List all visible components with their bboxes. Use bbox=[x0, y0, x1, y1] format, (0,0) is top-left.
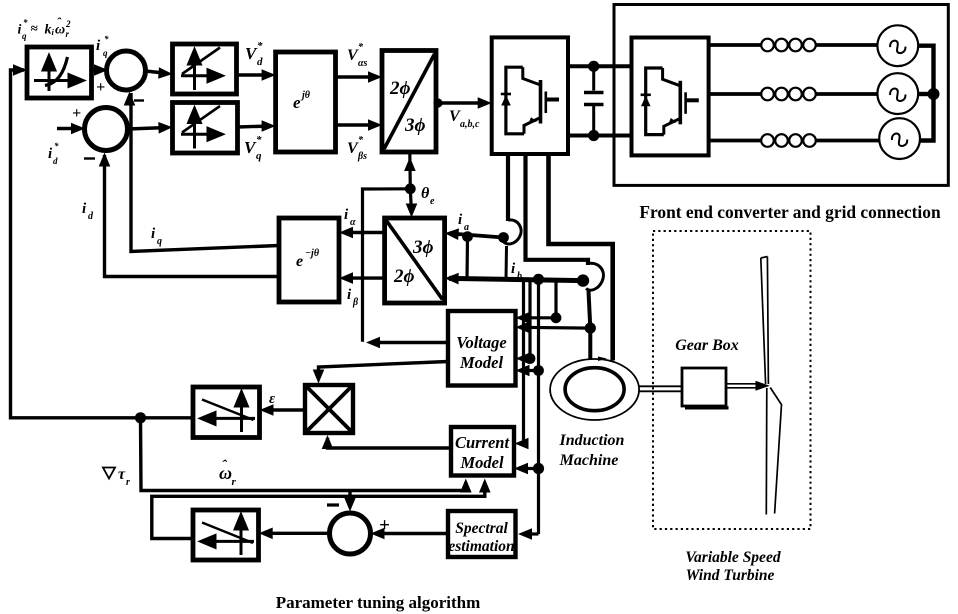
axes inside D1 bbox=[201, 392, 255, 432]
svg-text:d: d bbox=[53, 156, 58, 166]
wire CM input right bbox=[519, 467, 539, 470]
label e -jtheta bbox=[296, 248, 320, 270]
label id* ref bbox=[48, 141, 59, 166]
svg-text:*: * bbox=[104, 34, 109, 44]
block spectral estimation bbox=[448, 511, 516, 557]
wire phase B drop bbox=[526, 154, 589, 265]
svg-text:Machine: Machine bbox=[559, 452, 619, 469]
svg-text:+: + bbox=[379, 515, 390, 536]
node grid bus bbox=[928, 88, 940, 100]
wire sense column to VM4 CM spectral bbox=[537, 279, 540, 534]
label iq fb bbox=[151, 226, 162, 247]
svg-text:q: q bbox=[22, 31, 27, 41]
wire tuning node down to bottom bus bbox=[141, 418, 462, 491]
svg-text:βs: βs bbox=[357, 151, 367, 162]
svg-text:k: k bbox=[45, 23, 52, 38]
svg-text:q: q bbox=[157, 236, 162, 247]
svg-text:a,b,c: a,b,c bbox=[460, 119, 480, 130]
label Vas* bbox=[347, 42, 368, 69]
axes inside B2 bbox=[181, 109, 222, 149]
machine top tick bbox=[598, 357, 607, 362]
wire phase C drop bbox=[549, 154, 613, 361]
wire id feedback to S2 bbox=[105, 155, 280, 277]
svg-text:estimation: estimation bbox=[448, 538, 514, 555]
label id fb bbox=[82, 201, 94, 222]
svg-text:r: r bbox=[232, 476, 237, 488]
svg-text:*: * bbox=[23, 18, 28, 28]
wire CM input top-right bbox=[519, 280, 524, 443]
svg-text:r: r bbox=[126, 477, 130, 488]
svg-text:−jθ: −jθ bbox=[305, 248, 320, 259]
svg-text:Wind Turbine: Wind Turbine bbox=[686, 567, 775, 584]
wire theta-e vertical bbox=[408, 152, 412, 189]
wire grid bus bbox=[918, 46, 933, 141]
gearbox shadow bbox=[685, 406, 729, 409]
svg-text:α: α bbox=[350, 217, 356, 228]
wire theta-e branch left down bbox=[363, 189, 411, 342]
wire VM input 3 bbox=[520, 280, 530, 358]
node on 2ph3ph output bbox=[433, 98, 442, 107]
svg-text:*: * bbox=[256, 134, 262, 146]
wire S2 to PI block B2 bbox=[128, 128, 169, 130]
wire ejt to ph23 bottom (Vbs) bbox=[336, 123, 379, 126]
block F1 speed-torque curve bbox=[27, 47, 92, 98]
wire Vabc to converter bbox=[436, 101, 487, 105]
wire F1 to S1 bbox=[92, 68, 105, 71]
wire D2 output loop to CM bbox=[152, 482, 485, 539]
label minus S1 bbox=[134, 99, 144, 101]
label ia bbox=[458, 212, 469, 233]
wire VM input 2 from phase B tap bbox=[520, 326, 590, 330]
declining line inside D1 bbox=[202, 400, 254, 421]
summing junction S3 bbox=[330, 513, 371, 554]
wire grid phase 2 bbox=[709, 92, 878, 96]
svg-text:Model: Model bbox=[459, 453, 503, 472]
shaft gearbox to hub bbox=[726, 383, 757, 385]
svg-text:r: r bbox=[66, 29, 70, 39]
block 3ph-2ph transform bbox=[385, 218, 445, 303]
node phase B tap bbox=[585, 323, 596, 334]
svg-text:*: * bbox=[257, 40, 263, 52]
igbt symbol front-end bbox=[641, 68, 699, 135]
wire feedback far-left loop bbox=[11, 70, 194, 418]
svg-text:Variable Speed: Variable Speed bbox=[685, 549, 780, 566]
svg-text:d: d bbox=[257, 56, 263, 68]
wire multiplier to D1 bbox=[264, 408, 305, 411]
PI block B1 bbox=[173, 44, 237, 94]
axes inside D2 bbox=[201, 515, 254, 555]
svg-text:Voltage: Voltage bbox=[456, 333, 506, 352]
svg-text:≈: ≈ bbox=[31, 21, 39, 36]
wire CM output to multiplier bbox=[328, 438, 452, 448]
label iq* ref bbox=[96, 34, 109, 58]
converter machine-side block bbox=[492, 37, 568, 154]
inductor grid 2 bbox=[761, 88, 816, 101]
node dc+ bbox=[588, 61, 599, 72]
svg-text:β: β bbox=[352, 297, 359, 308]
ramp line inside B2 bbox=[182, 106, 220, 133]
igbt symbol machine-side bbox=[501, 67, 559, 134]
wire iq feedback to S1 bbox=[131, 93, 279, 252]
block D1 tuning integrator bbox=[193, 387, 260, 438]
turbine hub bbox=[756, 381, 770, 391]
wire S1 to PI block B1 bbox=[146, 71, 169, 74]
ac source V2 bbox=[877, 73, 918, 114]
svg-text:+: + bbox=[72, 105, 81, 122]
svg-text:Front end converter and grid c: Front end converter and grid connection bbox=[639, 202, 941, 222]
ac source V3 bbox=[879, 118, 920, 159]
diagonal 2ph3ph bbox=[384, 54, 435, 149]
svg-text:+: + bbox=[96, 79, 105, 96]
wire S3 to D2 bbox=[263, 532, 330, 535]
block multiplier X bbox=[305, 385, 353, 433]
capacitor dc link bbox=[584, 66, 604, 135]
label Vbs* bbox=[347, 135, 367, 162]
wire ibeta 3ph2ph to e-jtheta bbox=[344, 276, 385, 279]
ramp line inside B1 bbox=[182, 48, 220, 75]
sensor hook phase B bbox=[586, 263, 603, 290]
wire ia sense line bbox=[449, 233, 504, 237]
summing junction S1 bbox=[107, 51, 146, 90]
label i-alpha bbox=[344, 207, 356, 228]
node VM1 corner bbox=[551, 312, 562, 323]
svg-text:Induction: Induction bbox=[559, 432, 625, 449]
node CM right bbox=[533, 463, 544, 474]
sensor hook phase A bbox=[503, 220, 521, 244]
svg-text:q: q bbox=[103, 48, 108, 58]
wire ejt to ph23 top (Vas) bbox=[336, 75, 379, 78]
svg-text:jθ: jθ bbox=[300, 90, 311, 101]
wire dc link bottom bbox=[568, 134, 632, 138]
graph axes inside F1 bbox=[34, 56, 83, 91]
label theta-e bbox=[421, 185, 435, 207]
wire B2 to ejt bbox=[238, 126, 272, 127]
svg-text:e: e bbox=[296, 253, 303, 270]
wire ia mid stub down bbox=[465, 237, 469, 281]
svg-text:Spectral: Spectral bbox=[455, 520, 508, 537]
label Vq* bbox=[244, 134, 262, 162]
node ia tap bbox=[498, 232, 509, 243]
svg-text:τ: τ bbox=[118, 466, 126, 483]
wire id* input stub bbox=[57, 127, 81, 130]
diagonal 3ph2ph bbox=[387, 221, 443, 300]
label Vd* bbox=[245, 40, 263, 68]
inductor grid 1 bbox=[761, 39, 816, 52]
wire B1 to ejt bbox=[237, 73, 272, 76]
shaft machine to gearbox bbox=[639, 385, 682, 387]
node ib tap bbox=[577, 274, 589, 286]
label i-beta bbox=[347, 287, 359, 308]
wire phase A drop bbox=[506, 154, 510, 221]
induction machine outer bbox=[550, 359, 639, 420]
cross multiplier bbox=[307, 387, 352, 432]
inductor grid 3 bbox=[761, 134, 816, 147]
wire branch down to S3 bbox=[348, 491, 351, 508]
PI block B2 bbox=[173, 103, 238, 154]
node VM4 bbox=[533, 365, 544, 376]
svg-text:Parameter tuning algorithm: Parameter tuning algorithm bbox=[276, 593, 481, 612]
turbine blade lower bbox=[766, 388, 781, 515]
svg-text:3ϕ: 3ϕ bbox=[412, 237, 434, 258]
wire grid phase 1 bbox=[709, 43, 878, 47]
svg-text:e: e bbox=[293, 93, 301, 112]
block current model bbox=[451, 427, 514, 476]
node tuning junction bbox=[135, 412, 146, 423]
label e jtheta bbox=[293, 90, 311, 112]
wire grid phase 3 bbox=[709, 139, 880, 143]
summing junction S2 bbox=[85, 108, 128, 151]
wire ib sense line bbox=[449, 278, 583, 280]
svg-text:3ϕ: 3ϕ bbox=[404, 115, 426, 136]
declining line inside D2 bbox=[202, 523, 253, 544]
gearbox block bbox=[682, 368, 726, 406]
block 2ph-3ph transform bbox=[382, 51, 436, 153]
wire phase A lower bbox=[505, 246, 509, 280]
induction machine inner bbox=[565, 368, 624, 411]
label minus S3 bbox=[327, 503, 339, 506]
svg-text:i: i bbox=[18, 23, 22, 38]
node ib junction bbox=[533, 274, 544, 285]
svg-text:2: 2 bbox=[65, 19, 71, 29]
node dc- bbox=[588, 130, 599, 141]
svg-text:ˆ: ˆ bbox=[57, 15, 62, 30]
node ia mid bbox=[462, 231, 473, 242]
turbine blade upper bbox=[761, 257, 769, 385]
node theta-e bbox=[405, 183, 416, 194]
wire VM output to multiplier bbox=[319, 362, 449, 380]
node VM3 bbox=[525, 353, 536, 364]
label minus S2 bbox=[84, 157, 95, 159]
svg-text:αs: αs bbox=[358, 58, 368, 69]
wire spectral to S3 bbox=[375, 532, 448, 535]
wire bus stub middle bbox=[918, 92, 933, 96]
svg-text:q: q bbox=[256, 150, 262, 162]
label ib bbox=[511, 261, 522, 282]
wire bottom bus up into CM bbox=[461, 482, 466, 491]
front-end outer box bbox=[614, 5, 948, 186]
svg-text:θ: θ bbox=[421, 185, 430, 202]
wire VM input 1 bbox=[520, 280, 556, 318]
svg-text:b: b bbox=[517, 271, 522, 282]
label Vabc bbox=[449, 108, 480, 130]
svg-text:e: e bbox=[430, 196, 435, 207]
svg-text:*: * bbox=[54, 141, 59, 151]
block e-jtheta bbox=[279, 218, 339, 302]
block D2 speed integrator bbox=[193, 510, 259, 560]
wire VM output left arrow bbox=[371, 341, 449, 344]
wire dc link top bbox=[568, 64, 632, 68]
dashed turbine box bbox=[653, 231, 811, 529]
wire VM input 4 bbox=[520, 369, 539, 372]
block ejtheta bbox=[276, 52, 336, 152]
wire phase B lower to machine bbox=[589, 291, 591, 361]
ac source V1 bbox=[877, 25, 918, 66]
converter front-end block bbox=[632, 38, 709, 156]
svg-text:2ϕ: 2ϕ bbox=[393, 266, 415, 287]
wire ialpha 3ph2ph to e-jtheta bbox=[344, 231, 385, 234]
axes inside B1 bbox=[181, 50, 222, 90]
svg-text:2ϕ: 2ϕ bbox=[389, 78, 411, 99]
svg-text:a: a bbox=[464, 222, 469, 233]
svg-text:ε: ε bbox=[269, 391, 276, 407]
label omega-hat r bbox=[219, 458, 237, 488]
svg-text:Model: Model bbox=[459, 353, 503, 372]
svg-text:Current: Current bbox=[455, 433, 510, 452]
wire spectral input right bbox=[523, 532, 539, 535]
svg-text:Gear Box: Gear Box bbox=[675, 337, 739, 354]
label grad tau r bbox=[103, 466, 130, 488]
curve inside F1 bbox=[45, 57, 68, 86]
label formula iq* = ki wr^2 bbox=[18, 15, 72, 42]
block voltage model bbox=[448, 311, 516, 386]
